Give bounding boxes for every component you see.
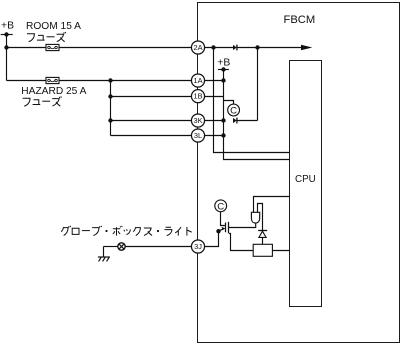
svg-text:1B: 1B <box>193 92 202 101</box>
wire: vertical diode return to 3K <box>257 48 259 121</box>
lower C to transistor gate lead <box>221 212 225 226</box>
dot inner bus 1A <box>221 78 225 82</box>
fuse HAZARD 25A <box>46 77 59 83</box>
label glove box light (katakana) <box>61 226 191 236</box>
diode on 3K row <box>233 118 237 124</box>
glove box light wire <box>104 246 118 248</box>
glove box light bulb <box>118 243 125 250</box>
zener to resistor stub <box>262 237 264 244</box>
pin 1B <box>191 90 204 103</box>
pin 2A <box>191 41 204 54</box>
svg-text:2A: 2A <box>193 43 202 52</box>
wire 3K to bus <box>204 120 223 122</box>
resistor R1 <box>253 244 272 256</box>
transistor Q1 <box>226 222 229 234</box>
zener diode D1 <box>258 231 267 238</box>
resistor right wire to CPU <box>273 250 290 252</box>
svg-text:3J: 3J <box>194 242 202 251</box>
dot +B bar <box>4 32 8 36</box>
wire after 3K diode <box>237 120 257 122</box>
wire to 1B <box>111 96 193 98</box>
svg-text:C: C <box>217 201 224 212</box>
inner +B bus down to CPU row2 <box>224 70 290 160</box>
wire: HAZARD row <box>7 80 47 82</box>
chassis ground <box>98 257 110 261</box>
transistor drain wire to bulb <box>229 223 256 227</box>
pin 3L <box>191 129 204 142</box>
lamp element (bulb) <box>251 212 259 223</box>
transistor gate arrowhead <box>222 227 226 231</box>
hook to connector C (upper) <box>224 101 234 105</box>
wire to 3K <box>111 120 193 122</box>
wire: +B down to HAZARD row <box>6 35 8 81</box>
pin 3K <box>191 114 204 127</box>
label fuse (katakana) for ROOM <box>27 32 66 42</box>
svg-text:CPU: CPU <box>295 174 316 185</box>
+B battery bar (left) <box>1 34 13 36</box>
pin 3J <box>191 240 204 253</box>
dot ROOM branch <box>4 45 8 49</box>
FBCM module box <box>198 3 400 343</box>
3J wire to gate input <box>204 231 218 246</box>
dot gate input <box>216 229 220 233</box>
wire: ROOM row <box>7 47 47 49</box>
wire: vertical from 2A dot to CPU row1 <box>214 48 290 153</box>
dot inner bus 3K <box>221 118 225 122</box>
+B bar (inner) <box>218 69 229 71</box>
left distribution bus <box>110 81 112 136</box>
bulb lead 1 and wire to CPU <box>254 197 290 213</box>
wire 1B to bus <box>204 96 223 98</box>
svg-text:3K: 3K <box>193 116 202 125</box>
wire: 2A row inside FBCM <box>204 47 233 49</box>
label fuse (katakana) for HAZARD <box>23 96 62 106</box>
wire 1A to bus <box>204 80 223 82</box>
fuse ROOM 15A <box>46 44 59 50</box>
bulb lead 2 hook to zener <box>258 204 263 231</box>
gate input arrow line <box>219 229 224 231</box>
dot diode return <box>255 45 259 49</box>
svg-text:1A: 1A <box>193 76 202 85</box>
wire to 3L <box>111 135 193 137</box>
diode on 2A row <box>233 45 237 51</box>
svg-text:+B: +B <box>1 21 14 32</box>
dot bus 1A <box>108 78 112 82</box>
CPU box <box>290 61 322 307</box>
dot inner +B bar <box>221 67 225 71</box>
svg-text:FBCM: FBCM <box>284 14 316 26</box>
svg-text:C: C <box>230 106 237 117</box>
svg-text:ROOM 15 A: ROOM 15 A <box>26 21 81 32</box>
connector mark C (lower) <box>215 200 227 212</box>
dot 2A branch <box>211 45 215 49</box>
transistor source wire to resistor <box>229 234 254 251</box>
connector mark C (upper) <box>228 104 240 116</box>
ground drop wire <box>103 247 105 258</box>
dot bus 1B <box>108 94 112 98</box>
dot bus 3K <box>108 118 112 122</box>
svg-text:HAZARD 25 A: HAZARD 25 A <box>21 86 86 97</box>
pin 1A <box>191 74 204 87</box>
arrow into CPU from 2A row <box>301 45 312 51</box>
dot inner bus 3L <box>221 133 225 137</box>
svg-text:+B: +B <box>217 58 230 69</box>
svg-text:3L: 3L <box>194 131 202 140</box>
wire 3L to bus <box>204 135 223 137</box>
